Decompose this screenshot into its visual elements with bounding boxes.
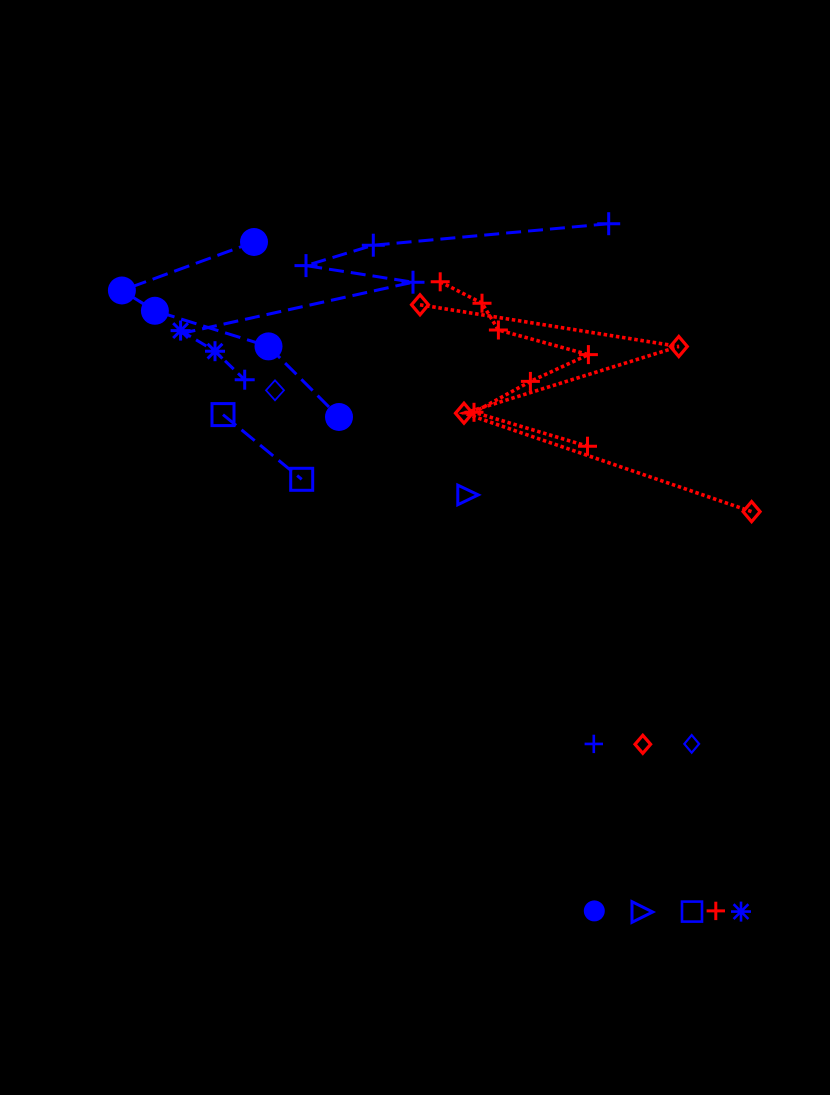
blue plus marker Q2	[362, 244, 385, 247]
blue filled circle C3	[141, 297, 169, 325]
legend blue filled circle	[584, 900, 605, 921]
red open diamond D1	[412, 295, 429, 315]
blue filled circle C1	[240, 228, 268, 256]
blue small open diamond	[266, 380, 284, 400]
legend blue asterisk	[740, 902, 743, 922]
blue plus marker A3	[235, 378, 255, 381]
blue circle-series dashed polyline	[122, 242, 339, 417]
blue filled circle C2	[108, 277, 136, 305]
blue filled circle C4	[255, 332, 283, 360]
red open diamond D2	[670, 337, 687, 357]
red plus marker P6	[465, 411, 484, 414]
red diamond-series dotted polyline	[420, 305, 752, 512]
blue asterisk A2	[214, 341, 217, 361]
legend blue plus	[585, 743, 603, 746]
legend blue triangle	[632, 902, 653, 923]
red plus marker P3	[489, 329, 508, 332]
blue square-series dashed line	[223, 415, 302, 480]
red plus marker P1	[431, 280, 450, 283]
blue open square S1	[212, 404, 234, 426]
red open diamond D3	[456, 403, 473, 423]
legend blue square	[682, 902, 702, 922]
red plus-series dotted polyline	[440, 282, 588, 446]
blue open triangle T1	[458, 485, 479, 505]
blue asterisk A1	[179, 321, 182, 341]
blue plus marker Q1	[295, 264, 318, 267]
blue connector line C2-C3	[122, 291, 155, 311]
blue plus marker Q3	[597, 222, 620, 225]
blue asterisk-series dashed polyline	[181, 331, 245, 380]
red plus marker P5	[521, 380, 540, 383]
blue open square S2	[291, 468, 313, 490]
legend blue diamond	[684, 735, 699, 753]
legend red plus	[707, 909, 725, 912]
red open diamond D4	[743, 502, 760, 522]
blue plus-series dashed polyline	[179, 224, 609, 334]
red plus marker P7	[578, 445, 597, 448]
blue plus marker Q4	[402, 281, 425, 284]
blue filled circle C5	[325, 403, 353, 431]
legend red diamond	[635, 735, 651, 753]
red plus marker P2	[473, 302, 492, 305]
red plus marker P4	[579, 353, 598, 356]
